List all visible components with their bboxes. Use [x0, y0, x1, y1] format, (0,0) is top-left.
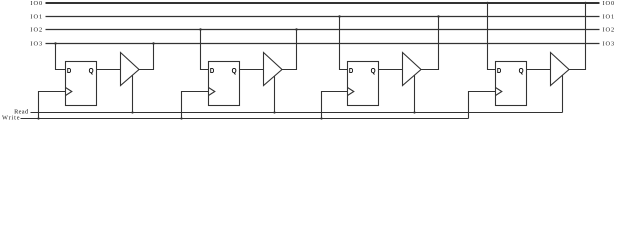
wire: DFF2 clock input to Write line [182, 92, 209, 119]
D flip-flop DFF1 body [66, 62, 97, 106]
net IO1 bus line [46, 16, 600, 18]
wire: IO3 tap down to DFF1 D input [56, 44, 66, 70]
svg-text:IO2: IO2 [603, 27, 615, 34]
DFF4 clock wedge [496, 88, 502, 96]
svg-text:D: D [210, 66, 215, 75]
junction on IO1 at B3 output riser [437, 15, 439, 17]
D flip-flop DFF3 body [348, 62, 379, 106]
net IO3 bus line [46, 43, 600, 45]
junction on Write line at DFF2 clock drop [180, 117, 182, 119]
svg-text:IO2: IO2 [30, 27, 42, 34]
tri-state buffer B4 [551, 53, 570, 86]
wire: buffer B3 output up to IO1 [421, 17, 439, 70]
svg-text:IO0: IO0 [30, 0, 42, 7]
D flip-flop DFF4 body [496, 62, 527, 106]
wire: buffer B4 output up to IO0 [569, 3, 586, 70]
junction on Write line at DFF3 clock drop [320, 117, 322, 119]
wire: DFF1 clock input to Write line [39, 92, 66, 119]
tri-state buffer B1 [121, 53, 140, 86]
D flip-flop DFF2 body [209, 62, 240, 106]
wire: DFF1 Q output to buffer B1 input [97, 69, 121, 71]
junction on IO2 at DFF2 tap [199, 28, 201, 30]
net IO0 bus line [46, 2, 600, 4]
svg-text:D: D [349, 66, 354, 75]
svg-text:IO3: IO3 [603, 41, 615, 48]
net Write control line [21, 118, 469, 120]
wire: DFF3 Q output to buffer B3 input [379, 69, 403, 71]
svg-text:Q: Q [519, 66, 524, 75]
wire: DFF4 Q output to buffer B4 input [527, 69, 551, 71]
wire: IO2 tap down to DFF2 D input [201, 30, 209, 70]
wire: DFF4 clock input to Write line [469, 92, 496, 119]
wire: buffer B1 enable to Read line [132, 75, 134, 112]
wire: buffer B1 output up to IO3 [139, 44, 154, 70]
tri-state buffer B2 [264, 53, 283, 86]
DFF1 clock wedge [66, 88, 72, 96]
junction on IO2 at B2 output riser [295, 28, 297, 30]
svg-text:IO1: IO1 [603, 14, 615, 21]
DFF2 clock wedge [209, 88, 215, 96]
wire: IO0 tap down to DFF4 D input [488, 3, 496, 70]
wire: buffer B2 output up to IO2 [282, 30, 297, 70]
junction on IO3 at DFF1 tap [54, 42, 56, 44]
wire: DFF2 Q output to buffer B2 input [240, 69, 264, 71]
junction on IO0 at B4 output riser [584, 2, 586, 4]
wire: buffer B2 enable to Read line [274, 76, 276, 113]
DFF3 clock wedge [348, 88, 354, 96]
net Read control line [31, 112, 563, 114]
tri-state buffer B3 [403, 53, 422, 86]
svg-text:D: D [497, 66, 502, 75]
junction on IO1 at DFF3 tap [338, 15, 340, 17]
svg-text:Write: Write [2, 115, 20, 122]
junction on IO3 at B1 output riser [152, 42, 154, 44]
svg-text:Q: Q [371, 66, 376, 75]
wire: buffer B3 enable to Read line [414, 75, 416, 112]
net IO2 bus line [46, 29, 600, 31]
junction on Read line at B2 enable [273, 111, 275, 113]
wire: buffer B4 enable to Read line [562, 75, 564, 112]
wire: IO1 tap down to DFF3 D input [340, 17, 348, 70]
junction on Read line at B1 enable [131, 111, 133, 113]
wire: DFF3 clock input to Write line [322, 92, 348, 119]
svg-text:IO3: IO3 [30, 41, 42, 48]
junction on Read line at B3 enable [413, 111, 415, 113]
svg-text:D: D [67, 66, 72, 75]
svg-text:IO1: IO1 [30, 14, 42, 21]
svg-text:IO0: IO0 [603, 0, 615, 7]
svg-text:Q: Q [89, 66, 94, 75]
junction on IO0 at DFF4 tap [486, 2, 488, 4]
junction on Write line at DFF1 clock drop [37, 117, 39, 119]
svg-text:Q: Q [232, 66, 237, 75]
